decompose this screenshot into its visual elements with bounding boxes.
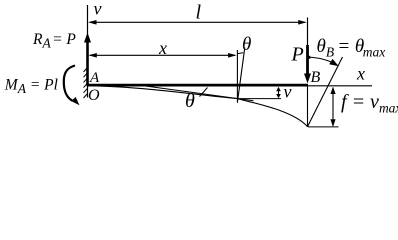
svg-text:A: A — [89, 70, 100, 86]
f dimension line — [330, 87, 335, 127]
svg-text:f = vmax: f = vmax — [341, 91, 398, 116]
x axis right of B — [308, 85, 372, 87]
svg-text:RA = P: RA = P — [32, 31, 76, 51]
svg-text:x: x — [356, 64, 365, 84]
svg-text:v: v — [94, 0, 102, 19]
leader tick for theta at curve — [200, 88, 208, 97]
support hatching — [84, 68, 88, 99]
svg-text:O: O — [88, 87, 100, 104]
deflection curve — [88, 86, 308, 127]
dimension line l — [88, 20, 307, 25]
beam AB — [87, 84, 309, 87]
svg-text:B: B — [311, 69, 321, 86]
load arrow P — [304, 45, 311, 83]
svg-text:θB = θmax: θB = θmax — [317, 36, 386, 60]
svg-text:P: P — [291, 43, 304, 65]
B' extension line — [308, 126, 339, 128]
svg-text:θ: θ — [242, 34, 251, 55]
line from B down to B' — [307, 87, 309, 128]
svg-text:v: v — [284, 82, 292, 102]
svg-text:θ: θ — [185, 90, 195, 112]
rotated section line — [238, 48, 245, 102]
v deflection extension line — [238, 98, 282, 100]
svg-text:x: x — [158, 38, 167, 58]
angle tick theta top — [237, 52, 243, 55]
v axis / wall line — [87, 5, 89, 98]
section vertical line — [236, 50, 238, 103]
dimension line x — [88, 53, 236, 58]
theta_B angle arc — [307, 56, 339, 67]
tangent at B' — [308, 57, 343, 127]
load line above B — [307, 18, 309, 47]
svg-text:MA = Pl: MA = Pl — [4, 76, 58, 96]
moment arc M_A — [64, 66, 80, 106]
reaction arrow R_A — [84, 33, 91, 85]
svg-text:l: l — [196, 2, 202, 24]
tangent line at section point — [140, 85, 254, 100]
v deflection dimension — [276, 87, 281, 99]
